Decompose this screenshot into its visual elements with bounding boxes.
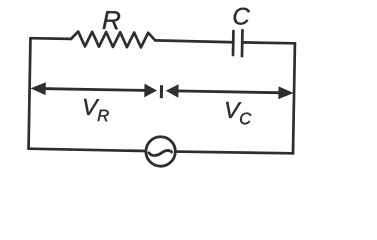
resistor R — [71, 31, 155, 47]
voltage arrow V_C (double-headed, across capacitor) — [166, 84, 294, 100]
wire left rail — [29, 38, 31, 148]
label R — [102, 5, 121, 35]
label V_C — [224, 97, 252, 128]
wire right rail — [293, 43, 295, 153]
svg-text:R: R — [102, 5, 121, 35]
wire bottom-right (right rail to source) — [175, 151, 293, 153]
wire bottom-left (source to left rail) — [29, 149, 146, 151]
svg-text:C: C — [232, 3, 250, 30]
tick separator between V_R and V_C arrows — [160, 85, 163, 98]
AC source — [146, 137, 176, 167]
label C — [232, 3, 250, 30]
wire top-right (capacitor to right rail) — [242, 41, 295, 45]
svg-text:VC: VC — [224, 97, 252, 128]
capacitor C — [233, 30, 242, 56]
wire between resistor and capacitor — [155, 40, 233, 42]
wire top-left (source to resistor) — [30, 37, 70, 40]
label V_R — [82, 94, 110, 125]
svg-text:VR: VR — [82, 94, 110, 125]
voltage arrow V_R (double-headed, across resistor) — [30, 82, 157, 98]
